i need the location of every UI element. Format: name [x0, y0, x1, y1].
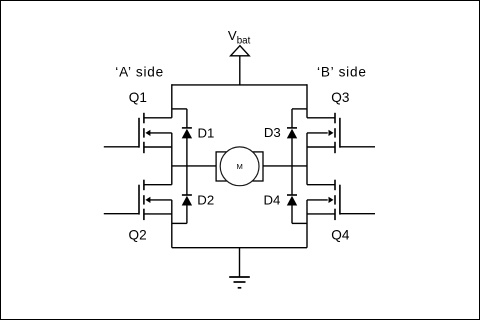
ground [229, 277, 250, 288]
svg-text:D1: D1 [198, 125, 215, 140]
wire D4 anode lead [291, 205, 293, 223]
diode D3 [287, 128, 297, 139]
label Q1 [129, 90, 147, 105]
svg-text:Q4: Q4 [331, 227, 350, 242]
label D1 [198, 125, 215, 140]
wire ground lead [239, 248, 241, 277]
label Q4 [331, 227, 350, 242]
label Q3 [331, 90, 349, 105]
label D3 [264, 125, 281, 140]
power symbol V_bat (triangle) [231, 46, 250, 56]
wire jog from D2 anode [172, 222, 187, 224]
svg-text:D2: D2 [197, 192, 214, 207]
svg-text:Q2: Q2 [129, 227, 147, 242]
transistor Q4 [307, 180, 375, 220]
transistor Q1 [104, 113, 172, 153]
svg-text:Q3: Q3 [331, 90, 349, 105]
node label 'A' side [115, 65, 164, 80]
wire D2 anode lead [186, 205, 188, 223]
wire Q2 source vertical [171, 200, 173, 248]
label D4 [264, 193, 281, 208]
wire Q3 drain vertical [306, 84, 308, 118]
wire Q1 drain vertical [171, 84, 173, 118]
diode D1 [182, 128, 192, 139]
wire Q4 source vertical [306, 200, 308, 248]
wire node A vertical (Q1 source to Q2 drain) [171, 133, 173, 185]
wire jog to D1 cathode [172, 108, 187, 110]
svg-text:‘B’ side: ‘B’ side [317, 65, 367, 80]
svg-text:D3: D3 [264, 125, 281, 140]
wire motor left lead [172, 165, 217, 167]
wire D1 cathode lead [186, 109, 188, 128]
wire jog to D3 cathode [292, 108, 307, 110]
wire motor right lead [263, 165, 307, 167]
node label 'B' side [317, 65, 367, 80]
wire D1 anode lead [186, 138, 188, 166]
svg-text:D4: D4 [264, 193, 281, 208]
wire bottom rail (ground rail) [172, 247, 307, 249]
svg-text:‘A’ side: ‘A’ side [115, 65, 164, 80]
label D2 [197, 192, 214, 207]
transistor Q2 [104, 180, 172, 220]
transistor Q3 [307, 113, 375, 153]
diode D4 [287, 195, 297, 206]
wire V_bat lead [239, 56, 241, 85]
svg-text:Vbat: Vbat [228, 28, 251, 46]
wire D4 cathode lead [291, 166, 293, 195]
wire D3 anode lead [291, 138, 293, 166]
svg-text:M: M [237, 162, 243, 171]
wire D2 cathode lead [186, 166, 188, 195]
diode D2 [182, 195, 192, 206]
motor M (DC motor symbol) [216, 147, 263, 186]
wire jog from D4 anode [292, 222, 307, 224]
wire node B vertical (Q3 source to Q4 drain) [306, 133, 308, 185]
label V_bat [228, 28, 251, 46]
svg-text:Q1: Q1 [129, 90, 147, 105]
wire D3 cathode lead [291, 109, 293, 128]
label Q2 [129, 227, 147, 242]
wire top rail (V_bat rail) [172, 84, 307, 86]
